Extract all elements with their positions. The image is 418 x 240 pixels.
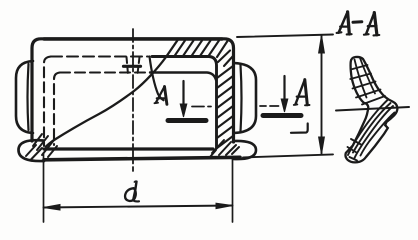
hatch right band <box>217 66 233 148</box>
label A-A <box>337 12 380 36</box>
inner contour 1 solid top <box>152 57 217 149</box>
height dim extension top <box>237 35 333 38</box>
body top edge thick <box>44 37 222 40</box>
center dimple dashed left <box>127 57 129 74</box>
inner contour 2 dashed top <box>60 71 147 73</box>
flange bottom line <box>44 157 240 160</box>
dim d extension right <box>232 158 234 222</box>
dim d arrow right <box>216 203 233 208</box>
section arrow right head <box>281 99 288 112</box>
right ear fold line <box>241 65 242 131</box>
hatch flange left end <box>26 134 57 160</box>
label d <box>125 181 139 201</box>
section arrow left bar <box>168 118 206 123</box>
inner contour 1 dashed corner-left <box>44 57 51 147</box>
flange left end loop <box>19 140 45 161</box>
center dimple dashed right <box>138 57 140 74</box>
hatch top band <box>175 41 234 67</box>
section arrow right shaft <box>283 76 285 102</box>
dim d extension left <box>43 153 45 222</box>
height dim extension bottom <box>243 154 333 157</box>
break line <box>46 40 178 147</box>
section arrow left shaft <box>182 81 184 107</box>
leader hook <box>291 124 308 133</box>
inner contour 1 dashed top <box>51 55 148 57</box>
right ear <box>234 63 256 133</box>
height dim line <box>321 36 323 154</box>
section arrow left head <box>180 104 187 117</box>
ear horizontal centerline <box>192 105 279 108</box>
flange top line <box>44 147 213 150</box>
section A-A hatch lower arm and elbow <box>348 100 395 161</box>
left ear fold line <box>28 64 29 130</box>
label A right <box>294 80 310 106</box>
vertical centerline <box>132 29 134 171</box>
dim d arrow left <box>44 205 61 211</box>
height dim arrow bottom <box>319 137 325 154</box>
flange right end loop <box>233 141 256 159</box>
dim d line <box>44 206 233 208</box>
label A left <box>155 87 167 105</box>
section A-A horizontal centerline <box>336 107 409 111</box>
break line inner boundary <box>150 57 164 101</box>
section arrow right bar <box>263 113 301 118</box>
left ear <box>16 61 33 133</box>
hatch flange right end <box>210 140 239 157</box>
center dimple bar <box>124 65 141 68</box>
inner contour 2 dashed corner-left <box>54 73 60 146</box>
height dim arrow top <box>319 35 325 53</box>
section A-A hatch upper arm <box>350 58 385 105</box>
section A-A outline <box>345 57 397 162</box>
inner contour 2 solid top <box>150 73 216 81</box>
body outer contour <box>32 39 234 142</box>
